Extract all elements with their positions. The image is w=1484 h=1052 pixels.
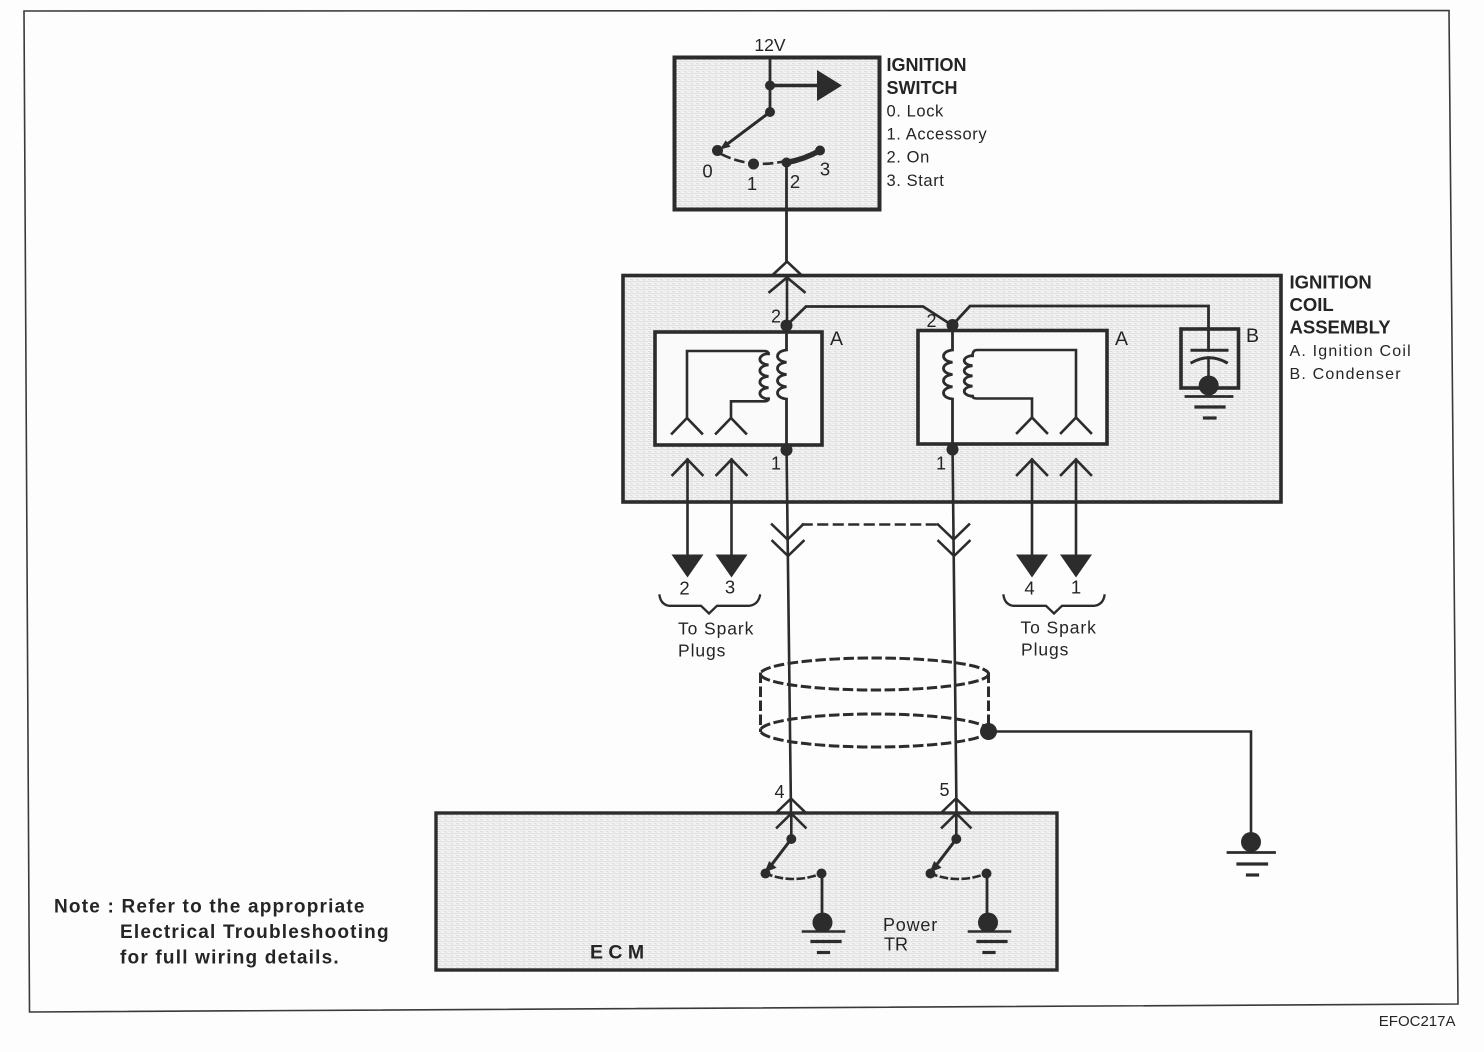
power transistor 2 left contact dot [926, 869, 936, 879]
svg-text:0: 0 [702, 161, 712, 182]
shield braid dashed cylinder bottom ellipse [761, 714, 989, 747]
power transistor 2 switch arm [935, 839, 957, 868]
svg-text:A: A [830, 328, 843, 350]
power transistor 1 collector dot [786, 834, 796, 844]
switch rotor arm toward position 0 [724, 112, 770, 147]
connector female half ECM pin 5 [942, 799, 971, 813]
coil 2 primary winding on main wire [944, 325, 953, 450]
svg-text:0. Lock: 0. Lock [887, 103, 945, 121]
power transistor 1 right contact dot [817, 869, 827, 879]
condenser ground dot [1199, 376, 1219, 396]
connector female half ECM pin 4 [777, 799, 806, 813]
svg-text:2: 2 [926, 311, 936, 331]
disconnect chevrons right wire [938, 525, 969, 540]
svg-text:3: 3 [725, 577, 735, 598]
connector female half at coil assembly input [772, 262, 803, 277]
wire secondary bottom to HT terminal (coil 2) [973, 396, 1033, 418]
svg-text:Power: Power [883, 915, 938, 935]
svg-text:TR: TR [884, 935, 908, 955]
svg-text:Electrical Troubleshooting: Electrical Troubleshooting [120, 922, 390, 943]
svg-text:To Spark: To Spark [1021, 618, 1097, 638]
svg-text:1: 1 [747, 173, 757, 194]
shield braid dashed cylinder top ellipse [761, 658, 989, 690]
wire node2 coil2 to condenser [953, 306, 1209, 350]
svg-text:ASSEMBLY: ASSEMBLY [1290, 317, 1392, 338]
power transistor 2 right contact dot [982, 869, 992, 879]
wire node2 coil1 to node2 coil2 [787, 307, 953, 326]
ignition coil 2 box A [918, 331, 1107, 445]
svg-text:4: 4 [1024, 578, 1034, 599]
svg-text:To Spark: To Spark [678, 619, 754, 639]
svg-text:5: 5 [939, 780, 949, 800]
wire to output arrow [770, 84, 817, 88]
ECM box [436, 813, 1057, 970]
svg-text:2: 2 [790, 171, 800, 192]
svg-text:1. Accessory: 1. Accessory [887, 126, 988, 144]
spark plug arrow 4 [1016, 555, 1048, 578]
connector male half inside assembly [770, 278, 805, 326]
condenser ground symbol [1186, 395, 1232, 398]
ignition switch box [675, 58, 880, 210]
HT terminal chevron 2 (coil 1) [716, 418, 746, 434]
contact dot position 3 [815, 146, 825, 156]
solid arrow head output [817, 70, 842, 101]
svg-text:2. On: 2. On [887, 149, 930, 167]
shield braid dashed side right [987, 674, 990, 731]
wire secondary top to HT terminal (coil 2) [973, 350, 1077, 418]
junction dot rotor pivot [765, 107, 775, 117]
svg-text:EFOC217A: EFOC217A [1379, 1013, 1456, 1030]
coil 2 secondary winding [964, 356, 972, 397]
contact dot position 2 [782, 158, 792, 168]
transistor 1 ground symbol [803, 930, 844, 933]
HT terminal chevron 1 (coil 2) [1017, 418, 1047, 434]
rotor arm arrowhead [720, 140, 731, 149]
svg-text:Plugs: Plugs [678, 641, 726, 661]
shield ground tap dot [980, 723, 997, 740]
node 2 dot (coil 2) [947, 319, 959, 331]
wire transistor 1 to ground [821, 874, 824, 914]
switch lever contact 2-3 [787, 151, 821, 163]
power transistor 1 left contact dot [761, 869, 771, 879]
svg-text:IGNITION: IGNITION [1290, 272, 1372, 293]
spark output connector arrows below coil 2 [1017, 460, 1047, 555]
contact dot position 0 [712, 145, 723, 156]
svg-text:A. Ignition Coil: A. Ignition Coil [1290, 343, 1412, 360]
transistor 2 ground dot [978, 913, 998, 933]
shield ground symbol [1228, 851, 1275, 854]
power transistor 1 switch arm [770, 839, 792, 868]
power transistor 2 collector dot [951, 834, 961, 844]
wire shield to ground [989, 732, 1252, 834]
svg-text:A: A [1115, 328, 1128, 350]
svg-text:Plugs: Plugs [1021, 640, 1069, 660]
dashed travel arc 0-1-2 [722, 155, 783, 164]
spark plug arrow 1 [1060, 555, 1092, 578]
svg-text:for full wiring details.: for full wiring details. [120, 948, 340, 969]
power transistor 2 dashed arc [931, 874, 987, 880]
svg-text:2: 2 [679, 578, 689, 599]
wire capacitor to ground dot [1207, 358, 1210, 378]
spark plug arrow 2 [672, 555, 704, 578]
svg-text:B: B [1246, 325, 1259, 347]
svg-text:E C M: E C M [590, 942, 644, 964]
power transistor 1 arm arrowhead [765, 861, 777, 872]
wire secondary top to HT terminal [687, 351, 769, 418]
power transistor 2 arm arrowhead [930, 861, 942, 872]
contact dot position 1 [748, 159, 759, 170]
svg-text:1: 1 [936, 454, 946, 474]
transistor 2 ground symbol [969, 930, 1010, 933]
svg-text:SWITCH: SWITCH [887, 78, 958, 98]
brace left [660, 596, 761, 614]
capacitor curved plate [1192, 358, 1227, 363]
svg-text:4: 4 [774, 782, 784, 802]
ignition coil 1 box A [655, 332, 822, 445]
junction dot on 12V feed [765, 81, 775, 91]
wire coil1 node1 down to ECM pin 4 [787, 445, 792, 813]
svg-text:2: 2 [771, 307, 781, 327]
svg-text:3: 3 [820, 159, 830, 180]
spark plug arrow 3 [716, 555, 748, 578]
wire 12V feed into switch [769, 58, 772, 113]
connector male half ECM pin 5 [942, 814, 971, 840]
shield braid dashed side left [759, 674, 762, 731]
svg-text:12V: 12V [754, 35, 785, 55]
wire secondary bottom to HT terminal [731, 399, 769, 418]
capacitor top plate [1192, 349, 1227, 352]
power transistor 1 dashed arc [766, 874, 822, 880]
wire coil2 node1 down to ECM pin 5 [953, 444, 957, 813]
condenser box B [1181, 329, 1239, 388]
coil 1 primary winding on main wire [778, 326, 787, 451]
disconnect chevrons left wire [772, 525, 803, 540]
ignition coil assembly box [623, 276, 1281, 503]
svg-text:3. Start: 3. Start [887, 172, 945, 190]
HT terminal chevron 2 (coil 2) [1061, 418, 1091, 434]
svg-text:IGNITION: IGNITION [887, 55, 967, 75]
brace right [1004, 596, 1105, 614]
node 2 dot (coil 1) [781, 320, 793, 332]
transistor 1 ground dot [813, 913, 833, 933]
svg-text:1: 1 [771, 454, 781, 474]
shield ground dot [1241, 832, 1261, 852]
wire switch output down [785, 163, 788, 262]
HT terminal chevron 1 (coil 1) [672, 418, 702, 434]
wire transistor 2 to ground [986, 874, 989, 914]
svg-text:Note : Refer to the appropriat: Note : Refer to the appropriate [54, 897, 366, 918]
spark output connector arrows below coil 1 [673, 460, 703, 555]
node 1 dot (coil 1) [781, 444, 793, 456]
dashed link between disconnects [803, 523, 938, 526]
node 1 dot (coil 2) [947, 444, 959, 456]
coil 1 secondary winding [760, 354, 769, 400]
svg-text:1: 1 [1071, 577, 1081, 598]
svg-text:COIL: COIL [1290, 294, 1334, 315]
connector male half ECM pin 4 [777, 814, 806, 840]
svg-text:B. Condenser: B. Condenser [1290, 366, 1402, 383]
